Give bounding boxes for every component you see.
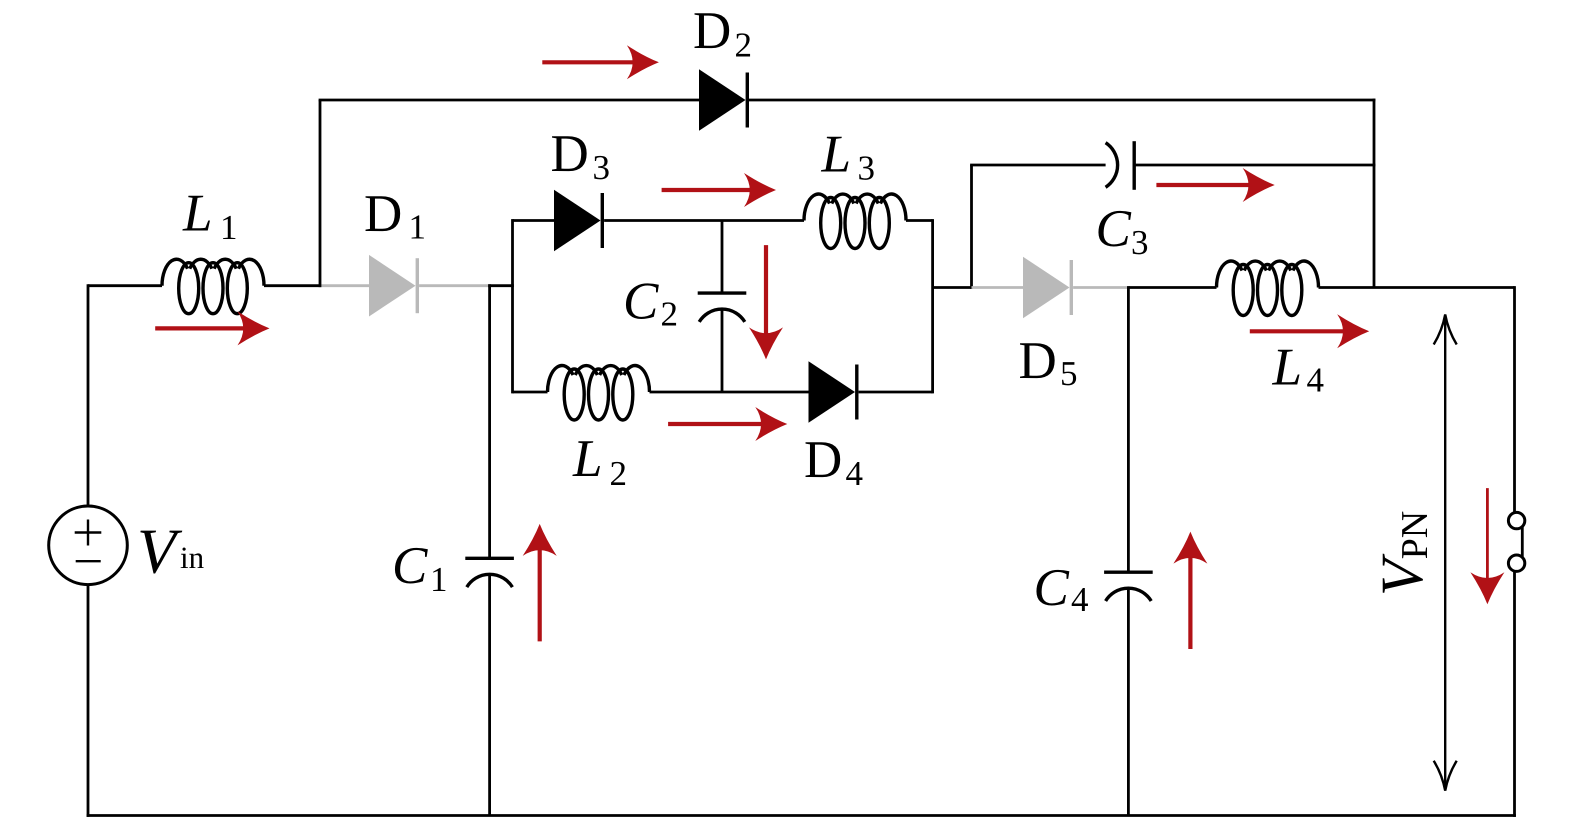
svg-text:2: 2 <box>661 295 679 334</box>
svg-text:L: L <box>821 126 851 184</box>
current arrow iC3 <box>1156 183 1252 187</box>
network bottom rail: D4 to right <box>859 391 933 394</box>
svg-text:C: C <box>1096 200 1132 258</box>
wire C3 rail left <box>970 164 1106 167</box>
wire C1 branch upper <box>488 284 491 558</box>
wire left vertical bottom <box>87 585 90 817</box>
svg-text:D: D <box>693 2 731 60</box>
diode D1 (gray) <box>369 255 416 317</box>
current arrow iL4 <box>1250 329 1347 333</box>
diode D2 <box>699 69 746 131</box>
svg-text:3: 3 <box>1131 223 1149 262</box>
svg-text:3: 3 <box>858 149 876 188</box>
wire bottom rail <box>87 814 1516 817</box>
svg-text:D: D <box>551 125 589 183</box>
network left vertical <box>511 219 514 393</box>
network bottom rail: left to L2 <box>513 391 548 394</box>
wire junction jog to network left <box>488 284 514 287</box>
wire C3 rail right <box>1134 164 1375 167</box>
network top rail: D3 to L3 <box>604 219 804 222</box>
current arrow vC1 (up) <box>538 546 542 642</box>
capacitor C2 <box>698 291 747 294</box>
svg-text:C: C <box>392 537 428 595</box>
wire right riser top (top rail to L4 level) <box>1373 99 1376 288</box>
network top rail: left to D3 <box>513 219 555 222</box>
current arrow iL2 <box>668 422 765 426</box>
capacitor C1 <box>465 557 514 560</box>
network top rail: L3 to right <box>906 219 933 222</box>
output port circles <box>1508 512 1524 528</box>
diode D3 <box>554 190 601 252</box>
voltage source Vin <box>49 506 128 585</box>
wire L1 to riser junction <box>264 284 321 287</box>
current arrow iC2 (down) <box>764 245 768 337</box>
wire riser to top rail <box>319 100 322 287</box>
diode D5 (gray) <box>1023 257 1070 319</box>
svg-text:2: 2 <box>735 26 753 65</box>
inductor L1 <box>162 259 264 285</box>
current arrow iout (down) <box>1486 488 1489 582</box>
svg-text:1: 1 <box>430 560 448 599</box>
svg-text:1: 1 <box>409 208 427 247</box>
wire stub network right to C3 riser <box>933 286 972 289</box>
inductor L3 <box>804 194 906 220</box>
wire top rail left of D2 <box>319 99 699 102</box>
wire L4 to right edge <box>1319 286 1515 289</box>
svg-text:4: 4 <box>846 454 864 493</box>
wire top rail right of D2 <box>748 99 1375 102</box>
current arrow vC4 (up) <box>1188 554 1192 649</box>
svg-text:C: C <box>1034 559 1070 617</box>
svg-text:D: D <box>364 185 402 243</box>
wire C2 branch upper <box>721 221 724 294</box>
svg-text:L: L <box>1272 339 1302 397</box>
current arrow iD2 <box>542 60 637 64</box>
svg-text:D: D <box>1019 332 1057 390</box>
VPN measure arrow (double headed) <box>1444 318 1446 787</box>
svg-text:D: D <box>804 431 842 489</box>
svg-text:1: 1 <box>220 208 238 247</box>
capacitor C3 (horizontal) <box>1106 143 1118 188</box>
current arrow iL1 <box>155 326 247 330</box>
wire C2 branch lower <box>721 309 724 393</box>
svg-text:3: 3 <box>593 148 611 187</box>
wire right edge vertical upper <box>1513 286 1516 512</box>
network bottom rail: L2 to D4 <box>650 391 809 394</box>
svg-text:5: 5 <box>1060 354 1078 393</box>
svg-text:L: L <box>572 430 602 488</box>
svg-text:2: 2 <box>610 454 628 493</box>
svg-text:4: 4 <box>1307 361 1325 400</box>
capacitor C4 <box>1104 571 1153 574</box>
diode D4 <box>809 361 856 423</box>
svg-text:in: in <box>180 540 205 575</box>
inductor L4 <box>1217 261 1319 287</box>
gray wire D1 <box>321 284 369 287</box>
wire C4 branch lower <box>1127 588 1130 816</box>
svg-text:4: 4 <box>1071 580 1089 619</box>
wire right edge vertical lower <box>1513 572 1516 817</box>
wire left vertical top <box>87 284 90 506</box>
wire C4 branch upper <box>1127 286 1130 572</box>
wire main left (source to L1) <box>88 284 162 287</box>
svg-text:L: L <box>182 184 212 242</box>
gray wire D5 <box>972 286 1024 289</box>
wire C1 branch lower <box>488 574 491 816</box>
svg-text:C: C <box>623 273 659 331</box>
network right vertical <box>931 219 934 393</box>
current arrow iD3 <box>662 188 754 192</box>
wire C4 junction to L4 <box>1128 286 1216 289</box>
wire C3 riser <box>970 165 973 289</box>
inductor L2 <box>548 366 650 392</box>
